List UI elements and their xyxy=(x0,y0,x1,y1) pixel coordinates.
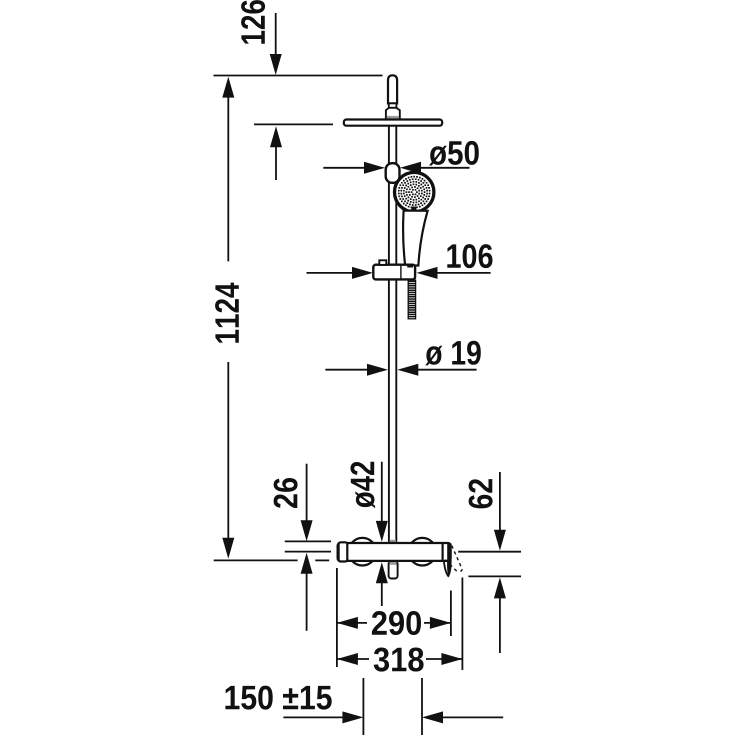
extension lines for 150 dimension xyxy=(362,678,364,735)
dimension 126 lower arrow (points up to plate line) xyxy=(275,145,277,180)
mixer left end cap xyxy=(339,542,348,561)
dimension 1124 top arrow (points up to top line) xyxy=(222,77,234,98)
shower riser pipe (vertical, two lines) xyxy=(388,120,390,543)
spray face bottom tab xyxy=(411,207,416,214)
mixer body xyxy=(338,543,451,561)
mixer handle swung position (dashed) xyxy=(452,546,462,570)
label 1124 (rotated) xyxy=(215,283,239,343)
extension line right for 290 xyxy=(450,591,452,637)
label 26 (rotated) xyxy=(274,478,298,508)
dimension 62 down arrow xyxy=(499,472,501,532)
dimension 106 right arrow + line xyxy=(417,267,438,279)
dimension o42 down arrow xyxy=(381,462,383,523)
bottom reference line at mixer bottom level xyxy=(214,559,298,561)
dimension 126 upper arrow (points down to top line) xyxy=(275,13,277,56)
top rod above shower head xyxy=(388,75,397,103)
hand shower head outer ring xyxy=(395,172,434,211)
mixer handle base divider xyxy=(442,544,444,561)
rod nut xyxy=(386,108,400,120)
outlet gray cap xyxy=(390,562,397,565)
dimension 26 down arrow xyxy=(306,464,308,522)
dimension o42 up arrow below mixer xyxy=(376,562,388,583)
holder divider line xyxy=(400,265,402,279)
nut gray band xyxy=(387,116,399,119)
label o50 xyxy=(429,141,479,166)
dimension 106 left line + arrow xyxy=(307,272,355,274)
label 150 +/-15 xyxy=(225,686,331,710)
shower head plate xyxy=(344,120,442,126)
dimension o50 left line + arrow xyxy=(323,167,366,169)
dimension 62 up arrow xyxy=(494,577,506,598)
label 62 (rotated) xyxy=(469,479,493,508)
dimension o19 right arrow + line xyxy=(397,364,418,376)
dimension 26 up arrow xyxy=(301,553,313,574)
label 126 (rotated) xyxy=(241,0,265,44)
shower hose (ribbed) xyxy=(408,280,415,319)
dimension 290 xyxy=(337,617,358,629)
dimension o19 left line + arrow xyxy=(325,369,369,371)
handle tip wedge in holder xyxy=(407,265,413,268)
label 290 xyxy=(372,611,421,635)
hand shower handle xyxy=(403,211,427,266)
extension line right for 318 xyxy=(461,578,463,671)
dimension 26 reference lines xyxy=(285,540,331,542)
mixer escutcheon circle left xyxy=(349,538,377,566)
mixer outlet stub below body xyxy=(389,562,398,579)
dimension 318 xyxy=(337,653,358,665)
mixer escutcheon circle right xyxy=(409,538,437,566)
extension line left (mixer left edge) xyxy=(336,568,338,667)
label o19 xyxy=(425,341,481,366)
slider knob on riser xyxy=(386,163,400,183)
label o42 (rotated) xyxy=(351,462,376,508)
dimension 1124 line lower segment with bottom arrow xyxy=(227,362,229,539)
pipe-to-mixer gray fitting xyxy=(390,540,397,544)
rod collar xyxy=(389,103,397,107)
top line at shower rod top level xyxy=(214,75,383,77)
reference line at shower plate level xyxy=(254,123,333,125)
dimension o50 right arrow + line xyxy=(400,162,421,174)
shower holder bracket xyxy=(373,265,415,280)
holder clip xyxy=(379,260,386,265)
hand shower spray face dots xyxy=(399,177,430,208)
mixer handle (solid hook) xyxy=(447,544,452,577)
dimension 150 arrows xyxy=(283,716,345,718)
label 318 xyxy=(374,648,424,672)
label 106 xyxy=(447,244,492,268)
dimension 62 reference lines xyxy=(458,551,521,553)
